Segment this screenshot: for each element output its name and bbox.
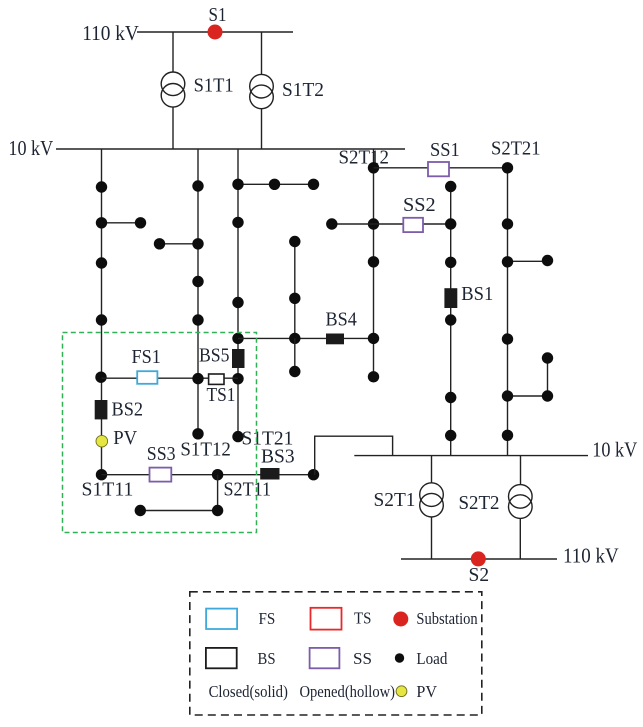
PV zone boundary (green dashed) <box>63 333 257 533</box>
substation S1 (red dot) <box>208 25 223 40</box>
wire branch F6-c <box>508 260 548 262</box>
node S1T11 <box>96 469 107 480</box>
transformer S1T2 <box>250 74 274 108</box>
node S1T12 <box>192 428 203 439</box>
wire branch F1-b <box>102 222 141 224</box>
svg-text:S1T2: S1T2 <box>282 80 324 101</box>
svg-text:Closed(solid): Closed(solid) <box>209 682 288 701</box>
node BS4 row left <box>232 333 243 344</box>
svg-text:SS2: SS2 <box>403 195 436 216</box>
load node F5-a <box>445 181 456 192</box>
wire feeder F6 (S2T21) <box>507 168 509 456</box>
wire feeder F1 <box>101 149 103 475</box>
wire feeder F2 <box>197 149 199 434</box>
bus 10 kV (upper) <box>56 148 405 150</box>
svg-text:BS5: BS5 <box>199 345 230 366</box>
svg-text:Opened(hollow): Opened(hollow) <box>300 682 396 701</box>
wire feeder F4 (S2T12) <box>373 149 375 377</box>
load node F5-b <box>445 218 456 229</box>
svg-text:TS: TS <box>354 608 371 627</box>
load node lower stub corner <box>212 505 223 516</box>
node after BS3 <box>308 469 319 480</box>
bus 10 kV (lower) <box>354 455 588 457</box>
load node top row mid <box>269 179 280 190</box>
load node F3-c <box>232 297 243 308</box>
switch SS3 (opened) <box>150 468 172 482</box>
transformer S1T1 <box>161 72 185 107</box>
svg-text:Substation: Substation <box>416 609 477 628</box>
svg-text:110 kV: 110 kV <box>82 21 139 45</box>
load node F3-b <box>232 217 243 228</box>
wire BS4 tie row <box>238 337 374 339</box>
wire feeder F5 (below SS1) <box>450 183 452 456</box>
wire SS1 tie row <box>374 167 508 169</box>
wire 10kV bus to transformer S2T1 <box>431 456 433 483</box>
node S2T11 <box>212 469 223 480</box>
svg-text:FS: FS <box>259 609 276 628</box>
node S1T21 <box>232 431 243 442</box>
load node lower stub left <box>135 505 146 516</box>
load node F5-d <box>445 314 456 325</box>
svg-text:S2T1: S2T1 <box>374 490 416 511</box>
PV unit <box>96 435 108 447</box>
legend PV symbol <box>396 686 407 697</box>
legend frame (black dashed) <box>190 592 482 715</box>
wire bus110 to transformer S1T1 <box>172 32 174 72</box>
svg-text:BS: BS <box>258 649 276 668</box>
wire S2T2 to 110kV bus <box>519 518 521 559</box>
switch BS5 (closed) <box>232 349 245 368</box>
switch BS2 (closed) <box>95 400 108 419</box>
node TS1 right junction <box>232 373 243 384</box>
svg-text:S1T12: S1T12 <box>180 440 231 461</box>
node FS1 row left junction <box>95 372 106 383</box>
load node F1-c <box>96 257 107 268</box>
wire BS3 to 10kV bus (step) <box>315 436 393 475</box>
load node F2-c <box>192 276 203 287</box>
wire FS1/TS1 tie row <box>102 377 239 379</box>
wire branch F6-e vertical <box>547 358 549 396</box>
wire branch above BS4 row <box>294 242 296 339</box>
svg-text:S1T1: S1T1 <box>194 75 234 96</box>
load node branch mid <box>289 293 300 304</box>
legend load symbol <box>395 653 404 662</box>
svg-text:S1: S1 <box>209 5 227 26</box>
load node F4 end <box>368 371 379 382</box>
svg-text:BS3: BS3 <box>261 446 295 467</box>
svg-text:BS4: BS4 <box>326 310 358 331</box>
svg-text:BS2: BS2 <box>112 399 144 420</box>
wire S1T2 to 10kV bus <box>261 109 263 149</box>
svg-text:10 kV: 10 kV <box>8 136 53 160</box>
wire branch F2-b <box>160 243 199 245</box>
load node F6-d <box>502 333 513 344</box>
load node branch F6-e top <box>542 352 553 363</box>
switch FS1 (opened) <box>137 371 157 384</box>
load node F2-d <box>192 314 203 325</box>
switch SS1 (opened) <box>428 162 449 176</box>
svg-text:PV: PV <box>416 682 437 701</box>
svg-text:S2T11: S2T11 <box>224 479 272 500</box>
load node stub end <box>289 366 300 377</box>
bus 110 kV (top, substation S1) <box>137 31 293 33</box>
node S2T12 <box>368 162 379 173</box>
switch BS4 (closed) <box>326 334 344 345</box>
load node F5-f <box>445 430 456 441</box>
load node top row end <box>308 179 319 190</box>
svg-text:S2T12: S2T12 <box>339 147 390 168</box>
wire branch F3 top row <box>238 183 314 185</box>
wire 10kV bus to transformer S2T2 <box>520 456 522 485</box>
load node F1-a <box>96 181 107 192</box>
legend substation symbol <box>393 612 408 627</box>
wire SS2 tie row <box>332 223 451 225</box>
load node F4-b <box>368 218 379 229</box>
wire SS3/BS3 tie row <box>102 474 314 476</box>
wire stub below BS4 row <box>294 338 296 371</box>
switch BS1 (closed) <box>444 288 457 308</box>
load node F1-d <box>96 314 107 325</box>
svg-text:S2T21: S2T21 <box>491 139 541 160</box>
load node F5-c <box>445 257 456 268</box>
transformer S2T2 <box>509 485 533 519</box>
load node F2-b <box>192 238 203 249</box>
load node F4-c <box>368 256 379 267</box>
load node F3-a <box>232 179 243 190</box>
svg-text:PV: PV <box>113 428 137 449</box>
load node BS4 row mid <box>289 333 300 344</box>
svg-text:Load: Load <box>416 649 448 668</box>
load node F6-c <box>502 256 513 267</box>
transformer S2T1 <box>420 483 444 517</box>
substation S2 (red dot) <box>471 551 486 566</box>
load node F6-b <box>502 218 513 229</box>
switch BS3 (closed) <box>260 468 279 480</box>
wire feeder F3 <box>237 149 239 437</box>
wire branch F6-e horizontal <box>508 395 548 397</box>
svg-text:110 kV: 110 kV <box>563 544 619 568</box>
load node SS2 row left end <box>326 218 337 229</box>
load node F2-a <box>192 180 203 191</box>
node S2T21 <box>502 162 513 173</box>
svg-text:BS1: BS1 <box>461 284 493 305</box>
svg-text:SS3: SS3 <box>147 444 176 465</box>
load node branch end <box>135 217 146 228</box>
switch SS2 (opened) <box>403 218 423 232</box>
node TS1 left junction <box>192 373 203 384</box>
wire S2T1 to 110kV bus <box>431 517 433 559</box>
bus 110 kV (bottom, substation S2) <box>401 558 557 560</box>
svg-text:S2T2: S2T2 <box>459 493 500 514</box>
load node F5-e <box>445 392 456 403</box>
load node F6-e <box>502 390 513 401</box>
load node branch F6-c end <box>542 255 553 266</box>
wire S1T1 to 10kV bus <box>172 107 174 149</box>
load node branch top <box>289 236 300 247</box>
svg-text:10 kV: 10 kV <box>592 438 637 462</box>
switch TS1 (opened) <box>209 374 224 384</box>
load node branch F6-e corner <box>542 390 553 401</box>
svg-text:TS1: TS1 <box>207 385 236 406</box>
svg-text:SS1: SS1 <box>430 140 460 161</box>
legend TS symbol <box>311 608 342 630</box>
svg-text:FS1: FS1 <box>132 347 161 368</box>
legend FS symbol <box>206 609 237 629</box>
node F4 BS4 row right <box>368 333 379 344</box>
wire bus110 to transformer S1T2 <box>261 32 263 75</box>
legend BS symbol <box>206 648 237 668</box>
svg-text:S1T11: S1T11 <box>82 479 134 500</box>
wire lower stub below S2T11 <box>140 475 217 511</box>
svg-text:SS: SS <box>353 649 372 668</box>
svg-text:S2: S2 <box>469 565 490 586</box>
load node branch F2-b end <box>154 238 165 249</box>
load node F1-b <box>96 217 107 228</box>
legend SS symbol <box>310 648 340 668</box>
load node F6-f <box>502 430 513 441</box>
